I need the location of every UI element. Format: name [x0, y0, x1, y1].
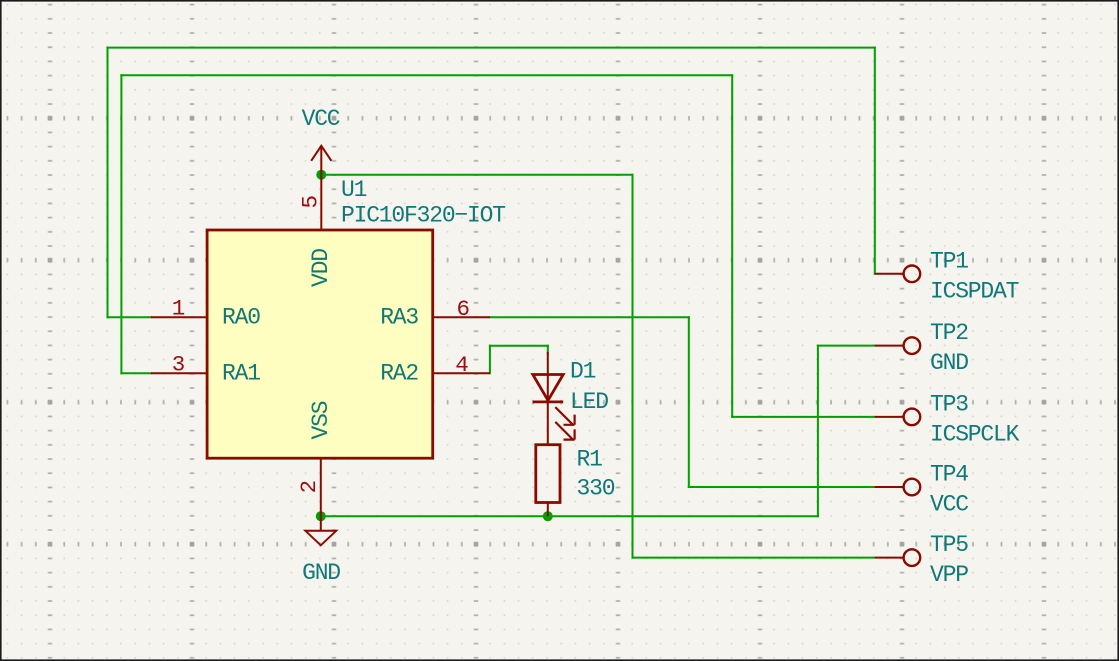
svg-text:RA1: RA1	[222, 360, 260, 386]
junction GND node at R1	[543, 511, 553, 521]
svg-text:VCC: VCC	[302, 106, 340, 132]
svg-text:4: 4	[455, 352, 469, 378]
wire net VCC horizontal to TP4	[689, 486, 875, 488]
wire net ICSPCLK horizontal to TP3	[732, 416, 875, 418]
svg-text:RA0: RA0	[222, 304, 260, 330]
svg-text:2: 2	[296, 480, 322, 494]
LED D1 anode lead	[547, 352, 549, 402]
test point TP3	[875, 409, 920, 426]
wire net VPP horizontal from VDD junction	[321, 174, 632, 176]
test point TP2	[875, 337, 920, 354]
wire net ICSPDAT vertical down to TP1	[874, 48, 876, 274]
wire net ICSPCLK vertical down	[731, 75, 733, 417]
wire net ICSPCLK segment from pin RA1	[121, 372, 151, 374]
wire stub down to LED D1 anode	[547, 346, 549, 354]
svg-text:PIC10F320−IOT: PIC10F320−IOT	[341, 203, 505, 229]
svg-text:LED: LED	[570, 389, 608, 415]
power symbol VCC arrow	[311, 146, 331, 161]
svg-text:TP4: TP4	[930, 461, 968, 487]
wire RA2 vertical stub	[489, 346, 491, 374]
wire net ICSPDAT segment from pin RA0	[108, 316, 152, 318]
svg-text:5: 5	[298, 195, 324, 209]
svg-text:TP3: TP3	[930, 391, 968, 417]
svg-text:VSS: VSS	[308, 401, 334, 439]
wire net ICSPCLK left vertical	[120, 75, 122, 373]
svg-text:GND: GND	[302, 560, 340, 586]
svg-text:RA3: RA3	[380, 304, 418, 330]
svg-text:6: 6	[457, 296, 471, 322]
svg-text:GND: GND	[930, 350, 968, 376]
pin 3 RA1	[151, 372, 207, 374]
test point TP5	[875, 549, 920, 566]
svg-text:3: 3	[172, 352, 186, 378]
pin 1 RA0	[151, 316, 207, 318]
pin 5 VDD	[320, 147, 322, 230]
wire net ICSPCLK top horizontal	[121, 74, 732, 76]
svg-text:D1: D1	[570, 358, 596, 384]
R1 bottom lead	[547, 503, 549, 517]
pin 4 RA2	[433, 372, 490, 374]
wire net GND bottom horizontal	[321, 515, 818, 517]
svg-text:ICSPCLK: ICSPCLK	[930, 421, 1020, 447]
svg-text:VDD: VDD	[308, 249, 334, 287]
resistor R1	[536, 445, 560, 503]
wire net ICSPDAT left vertical	[107, 48, 109, 318]
wire net VCC horizontal from pin RA3	[490, 316, 689, 318]
wire net VPP vertical down	[632, 175, 634, 558]
svg-text:TP1: TP1	[930, 248, 968, 274]
svg-text:330: 330	[577, 476, 615, 502]
test point TP1	[875, 266, 920, 283]
svg-text:1: 1	[172, 296, 186, 322]
IC U1 body	[207, 230, 433, 458]
svg-text:RA2: RA2	[380, 360, 418, 386]
svg-text:ICSPDAT: ICSPDAT	[930, 278, 1019, 304]
LED D1 triangle	[533, 375, 563, 401]
junction GND node at VSS	[316, 511, 326, 521]
pin 6 RA3	[433, 316, 490, 318]
svg-text:VPP: VPP	[930, 562, 968, 588]
svg-text:VCC: VCC	[930, 491, 968, 517]
svg-text:R1: R1	[577, 446, 603, 472]
LED light arrows	[555, 407, 574, 440]
ground symbol GND	[305, 531, 336, 546]
LED D1 cathode lead to R1	[547, 402, 549, 445]
LED D1 cathode bar	[533, 400, 563, 403]
wire net ICSPDAT top horizontal	[108, 47, 875, 49]
svg-text:U1: U1	[341, 177, 367, 203]
svg-text:TP5: TP5	[930, 532, 968, 558]
svg-text:TP2: TP2	[930, 320, 968, 346]
pin 2 VSS	[320, 458, 322, 531]
wire net GND horizontal to TP2	[818, 345, 875, 347]
wire net VCC vertical down	[688, 317, 690, 487]
wire net VPP horizontal to TP5	[633, 557, 875, 559]
wire RA2 horizontal to LED anode	[490, 345, 548, 347]
junction VDD node	[316, 170, 326, 180]
test point TP4	[875, 479, 920, 496]
wire net GND vertical up	[817, 346, 819, 517]
